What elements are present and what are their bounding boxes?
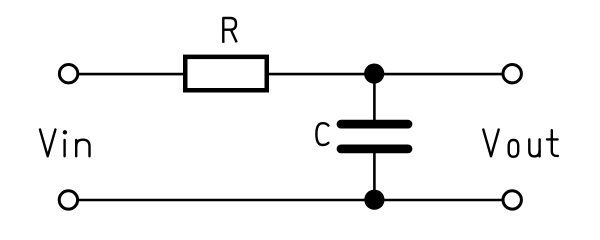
- node junction dot top: [364, 64, 384, 84]
- terminal Vin+ (top-left open circle): [59, 65, 77, 83]
- label C (capacitor reference): [316, 123, 328, 145]
- capacitor C bottom plate: [341, 144, 408, 153]
- wire bottom rail: [69, 199, 513, 202]
- label Vin i-dot: [63, 130, 67, 134]
- wire top rail left segment (Vin terminal to resistor): [69, 73, 183, 76]
- label R (resistor reference): [223, 18, 236, 43]
- terminal Vout+ (top-right open circle): [503, 65, 521, 83]
- wire top rail right segment (resistor to Vout terminal): [269, 73, 512, 76]
- terminal Vin- (bottom-left open circle): [59, 191, 77, 209]
- terminal Vout- (bottom-right open circle): [503, 191, 521, 209]
- label Vout (net name): [483, 130, 558, 157]
- resistor R body: [185, 57, 267, 90]
- wire capacitor top lead: [373, 74, 376, 122]
- capacitor C top plate: [341, 120, 408, 129]
- label Vin (net name): [40, 130, 90, 157]
- wire capacitor bottom lead: [373, 152, 376, 200]
- node junction dot bottom: [364, 190, 384, 210]
